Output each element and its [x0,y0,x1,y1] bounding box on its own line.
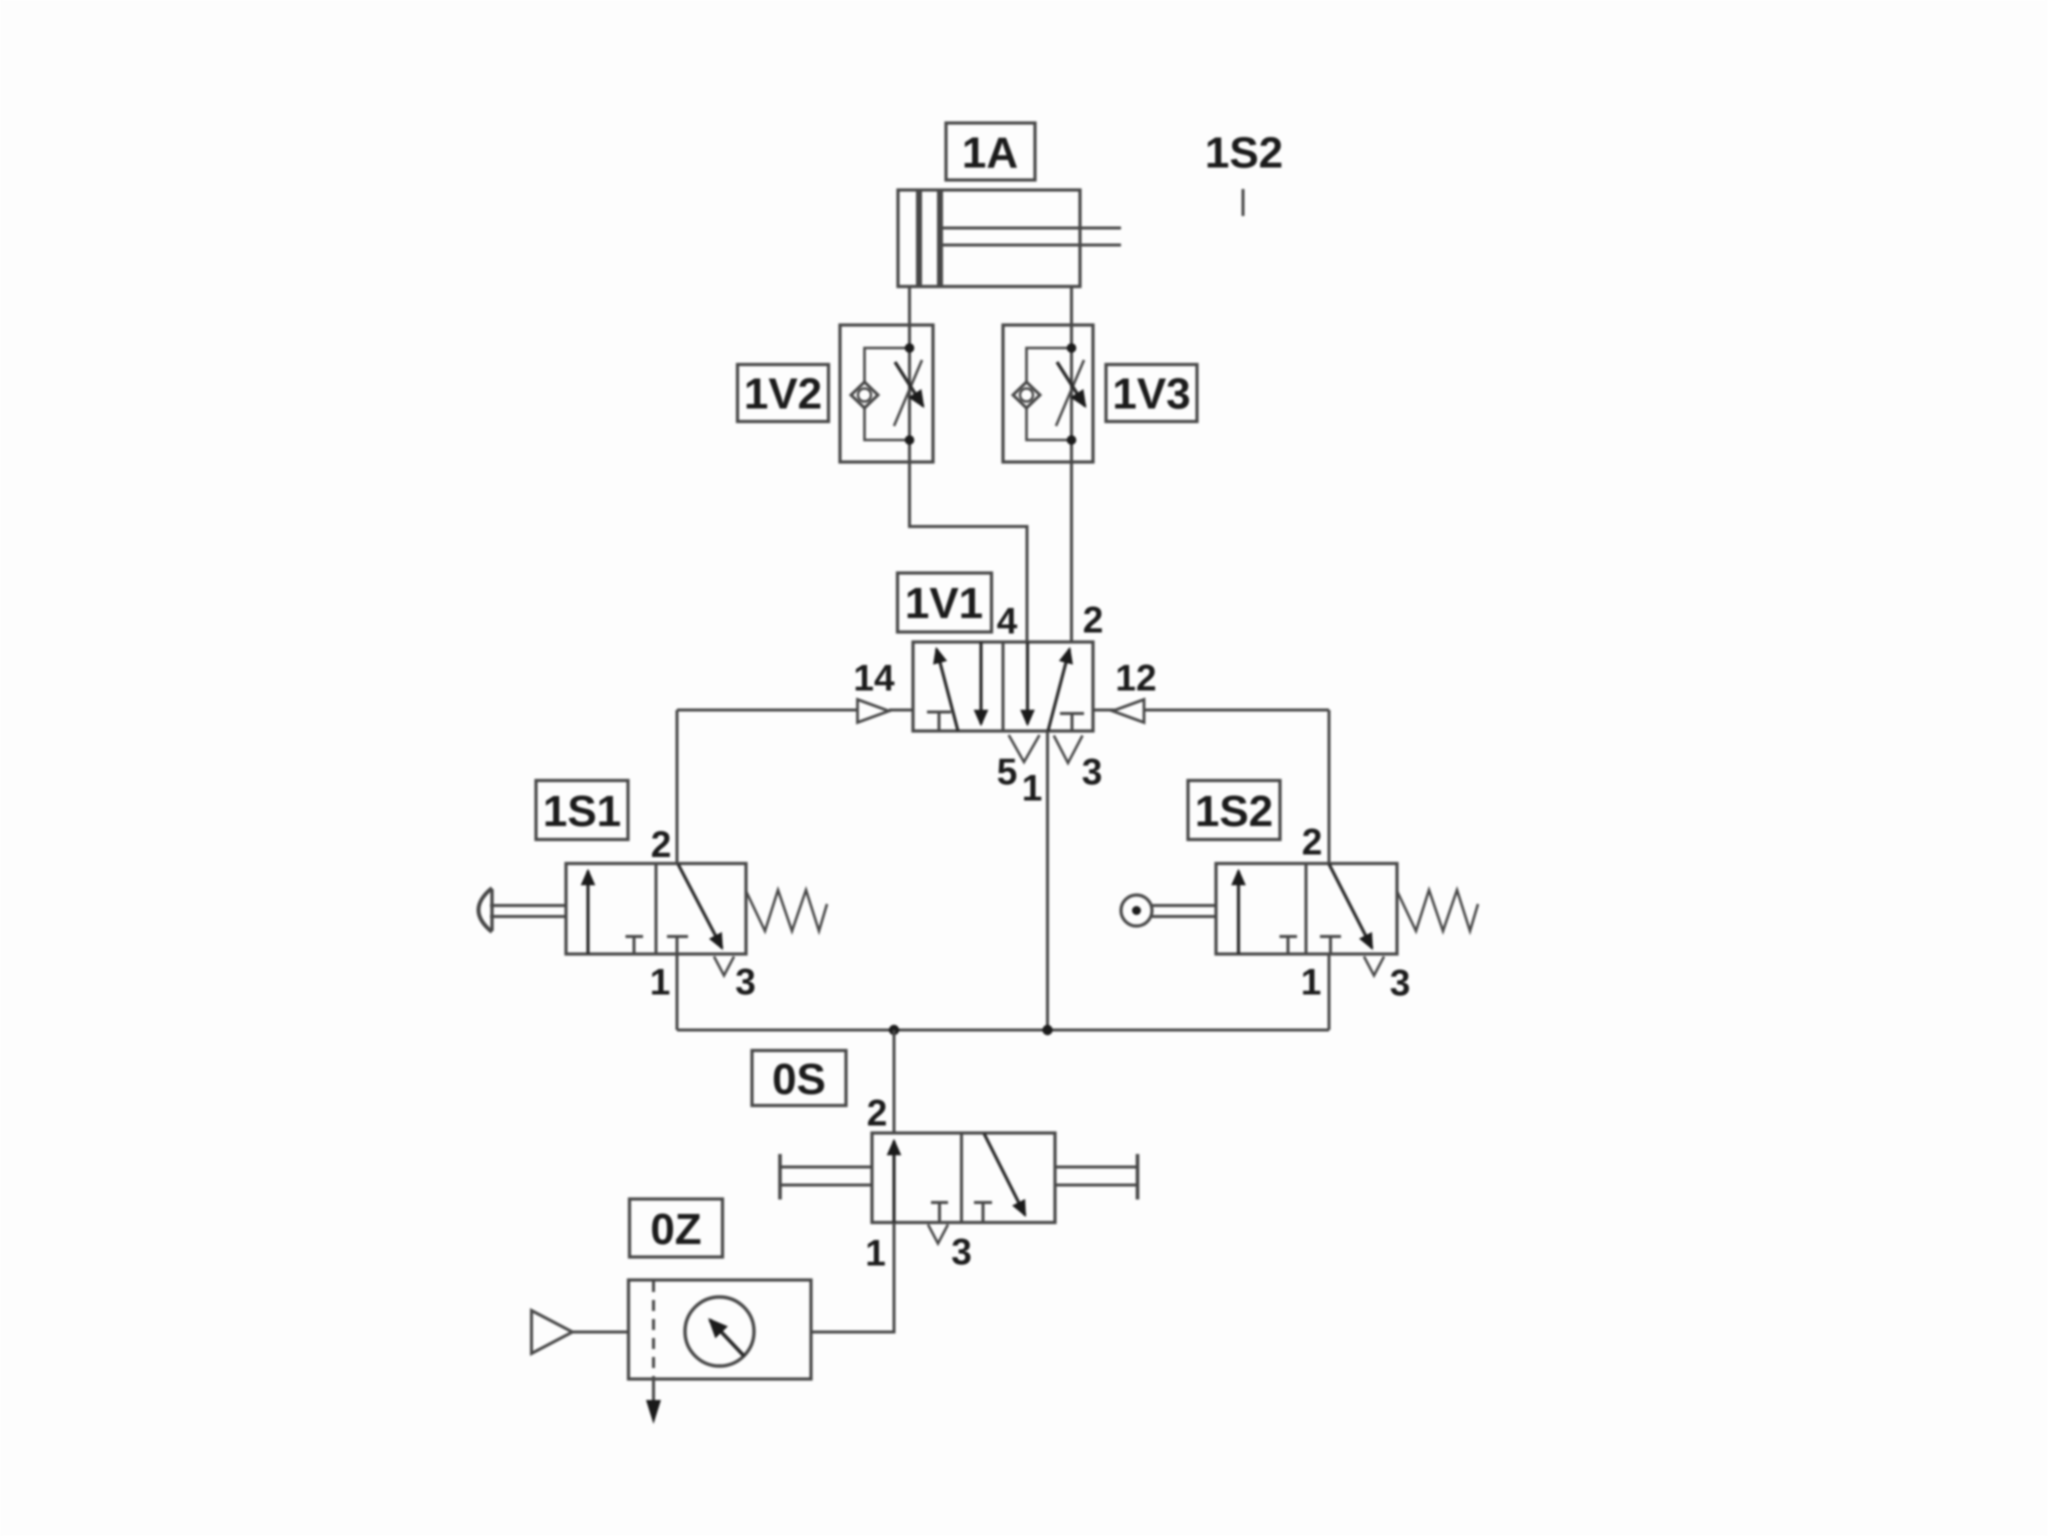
3/2-way valve 0S body [872,1133,1055,1223]
compressed air supply triangle [532,1311,629,1354]
label 1V1 [898,573,992,632]
1S2 right box: flow arrow 2->3 [1329,864,1372,948]
svg-text:0S: 0S [772,1055,826,1104]
svg-text:4: 4 [997,600,1018,641]
wire 0S port 1 to 0Z output [811,1223,894,1333]
svg-text:3: 3 [1082,751,1103,792]
1S1 left box: flow arrow 1->2 [586,871,589,954]
1S2 return spring [1397,890,1478,931]
0S left box: flow arrow 1->2 [892,1141,895,1223]
wire 1S1 port 1 to bus [676,954,679,1030]
label 1V2 [738,365,829,422]
1S2 left box: flow arrow 1->2 [1237,871,1240,954]
1S2 roller actuator [1121,895,1216,926]
svg-text:3: 3 [1390,962,1411,1003]
label 1V3 [1106,365,1197,422]
1V1 left box: flow arrow 1->4 [937,649,959,731]
svg-text:1: 1 [1022,767,1043,808]
1V1 right box: blocked port T [1060,714,1084,732]
marker tick for 1S2 position [1242,189,1245,216]
pilot wire 12 (right) [1093,709,1329,712]
svg-text:2: 2 [651,824,672,865]
1V1 right box: exhaust arrow 4->5 [1026,642,1029,724]
svg-text:2: 2 [1083,599,1104,640]
1S1 left box: blocked T [626,937,644,955]
wire 1V1 port 1 down to bus [1046,731,1049,1030]
label 1A [946,123,1035,180]
1S1 right box: flow arrow 2->3 [678,864,722,948]
1V1 left box: blocked port T [927,712,951,731]
svg-text:1: 1 [1301,961,1322,1002]
wire 1S2 port 2 riser [1328,710,1331,864]
label box 0Z [630,1199,723,1257]
flow control valve 1V2 [840,325,933,462]
svg-text:1V3: 1V3 [1112,369,1190,418]
0S left push-pull actuator [780,1154,872,1200]
svg-text:1S2: 1S2 [1195,787,1273,836]
1S2 right box: blocked port 1 T [1320,937,1341,955]
svg-text:0Z: 0Z [650,1205,701,1254]
0S right box: flow arrow 2->3 [984,1134,1025,1216]
exhaust triangle port 3 (1V1) [1054,736,1083,764]
pilot triangle 12 [1113,700,1145,723]
air service unit 0Z [629,1280,812,1379]
svg-text:1V1: 1V1 [905,579,983,628]
svg-text:5: 5 [997,751,1018,792]
pilot triangle 14 [858,700,890,723]
3/2-way valve 1S1 body [566,864,746,955]
1S2 exhaust triangle 3 [1364,957,1384,976]
svg-text:1S1: 1S1 [543,787,621,836]
svg-text:1S2: 1S2 [1205,128,1283,177]
wire cylinder left port through 1V2 down to jog into 1V1 port 4 [910,287,1028,644]
1S1 right box: blocked port 1 T [667,937,688,955]
wire cylinder right port through 1V3 down to 1V1 port 2 [1070,287,1073,644]
1S1 exhaust triangle 3 [714,957,734,976]
cylinder 1A [898,190,1121,287]
svg-text:3: 3 [951,1231,972,1272]
svg-text:1V2: 1V2 [744,369,822,418]
svg-text:1A: 1A [962,128,1018,177]
1V1 left box: exhaust arrow 2->3 [979,642,982,724]
1S2 left box: blocked T [1280,937,1298,955]
svg-text:1: 1 [650,961,671,1002]
svg-text:1: 1 [865,1232,886,1273]
label box 0S [752,1051,846,1106]
junction node at bus/0S [889,1025,899,1035]
wire 1S1 port 2 riser [676,710,679,864]
pilot wire 14 (left) [677,709,913,712]
0S right push-pull actuator [1055,1154,1138,1200]
svg-text:12: 12 [1115,657,1156,698]
exhaust triangle port 5 [1009,735,1040,762]
1S1 pushbutton actuator [479,888,567,932]
svg-text:2: 2 [867,1092,888,1133]
0S right box: blocked T [974,1203,992,1223]
0S exhaust triangle 3 [928,1225,948,1244]
5/2-way valve 1V1 body [913,642,1093,731]
wire 1S2 port 1 to bus [1328,954,1331,1030]
3/2-way valve 1S2 body [1216,864,1397,955]
svg-text:14: 14 [853,657,895,698]
svg-text:2: 2 [1302,821,1323,862]
junction node at bus/1V1 [1042,1025,1052,1035]
svg-text:3: 3 [735,961,756,1002]
0Z drain arrow [646,1379,661,1424]
1V1 right box: flow arrow 1->2 [1048,649,1070,731]
wire 0S port 2 to bus [893,1030,896,1133]
1S1 return spring [746,890,827,931]
bus wire [677,1029,1329,1032]
label box 1S2 [1188,781,1280,840]
flow control valve 1V3 [1003,325,1093,462]
label box 1S1 [536,781,628,840]
0S left box: blocked T [931,1203,948,1223]
